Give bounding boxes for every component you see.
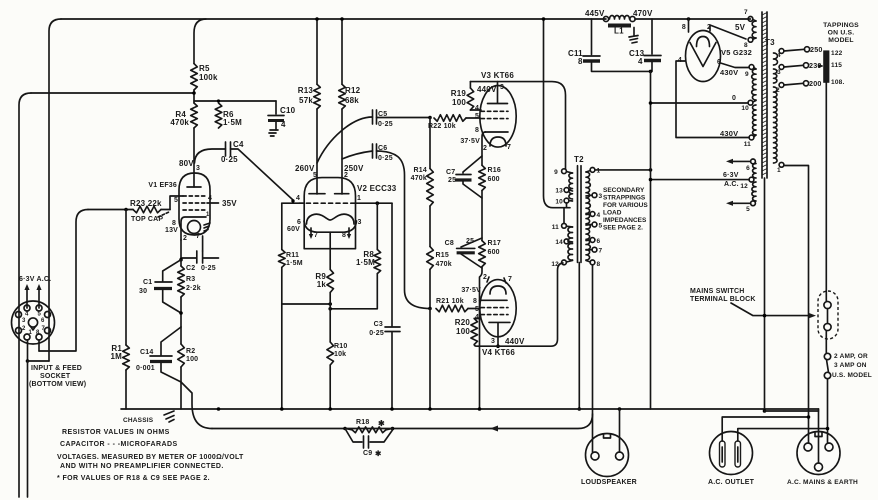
label heater AC	[19, 276, 51, 283]
svg-text:V2 ECC33: V2 ECC33	[357, 184, 397, 193]
T3 6.3V winding	[752, 164, 756, 202]
svg-text:R20: R20	[455, 318, 471, 327]
svg-text:60V: 60V	[287, 226, 300, 233]
socket pin numbers	[22, 312, 46, 337]
svg-text:TAPPINGS: TAPPINGS	[823, 22, 859, 29]
node V1 cathode	[179, 258, 183, 262]
wire tap 250	[784, 45, 823, 54]
svg-text:6: 6	[597, 238, 601, 245]
wire R2 to chassis	[180, 382, 182, 409]
T3 5V winding	[735, 9, 756, 49]
wire rail1 left corner down	[49, 19, 61, 361]
svg-text:4: 4	[638, 57, 643, 66]
svg-text:T2: T2	[574, 155, 584, 164]
svg-text:INPUT & FEED: INPUT & FEED	[31, 365, 82, 372]
svg-text:R19: R19	[451, 89, 467, 98]
svg-text:3: 3	[22, 318, 26, 324]
wire screen branch	[194, 99, 276, 102]
svg-text:2 AMP, OR: 2 AMP, OR	[834, 353, 868, 360]
svg-text:100: 100	[452, 98, 466, 107]
wire T2 pin11 stub	[563, 208, 565, 224]
resistor R17	[479, 240, 501, 267]
svg-text:0·25: 0·25	[201, 265, 216, 272]
svg-text:0: 0	[732, 95, 736, 102]
resistor R8	[331, 203, 381, 309]
capacitor C1	[139, 260, 181, 313]
wire T2 core to chassis	[578, 262, 582, 410]
wire V1 grid leak column	[125, 210, 127, 346]
svg-text:5: 5	[475, 306, 479, 313]
svg-text:0·25: 0·25	[221, 155, 238, 164]
svg-text:1·5M: 1·5M	[286, 260, 303, 267]
tube V5 GZ32 envelope	[686, 31, 753, 82]
svg-text:1k: 1k	[317, 280, 327, 289]
V4 heater loop	[490, 286, 506, 294]
wire T2 pin10 stub	[566, 203, 568, 208]
svg-text:1: 1	[777, 167, 781, 174]
T2 secondary terminals	[586, 168, 597, 265]
V2 heater pins	[309, 228, 351, 239]
wire T3 core earth	[764, 178, 766, 411]
T2 primary terminals	[562, 169, 573, 265]
svg-text:STRAPPINGS: STRAPPINGS	[603, 195, 646, 202]
svg-text:11: 11	[744, 141, 751, 148]
wire earth drop	[765, 410, 819, 412]
resistor R23	[130, 199, 170, 213]
resistor R11	[279, 203, 303, 304]
wire junction to chassis	[429, 309, 431, 410]
svg-text:2: 2	[483, 145, 487, 152]
wire V5 pin2 to 5V winding	[710, 25, 746, 39]
ac mains connector	[787, 432, 858, 487]
V1 pin5 bracket	[170, 196, 183, 210]
svg-text:R2: R2	[186, 348, 195, 355]
svg-text:9: 9	[745, 71, 749, 78]
svg-text:2: 2	[183, 235, 187, 242]
svg-text:4: 4	[281, 120, 286, 129]
V1 heater loop	[165, 221, 201, 243]
node ground bus top	[649, 70, 653, 74]
V2 anode plates	[309, 193, 349, 195]
capacitor C13	[629, 19, 661, 71]
wire R5 branch corner	[194, 19, 206, 64]
svg-text:7: 7	[42, 326, 46, 332]
V3 anode	[477, 82, 508, 104]
svg-text:C3: C3	[374, 321, 383, 328]
resistor R1	[110, 344, 129, 370]
svg-text:3: 3	[599, 193, 603, 200]
T3 HT winding upper	[745, 65, 756, 100]
resistor R15	[427, 206, 452, 269]
svg-text:445V: 445V	[585, 9, 605, 18]
capacitor C8	[445, 238, 482, 268]
svg-text:1M: 1M	[110, 352, 122, 361]
svg-text:5: 5	[38, 312, 42, 318]
svg-text:8: 8	[473, 298, 477, 305]
svg-text:✱: ✱	[378, 419, 385, 428]
capacitor C2	[181, 236, 219, 272]
resistor R6	[215, 103, 242, 128]
svg-text:TERMINAL BLOCK: TERMINAL BLOCK	[690, 296, 756, 303]
svg-text:1: 1	[29, 330, 33, 336]
resistor R21	[436, 298, 480, 312]
wire B+ top rail	[61, 18, 606, 20]
T2 primary pin labels	[551, 169, 563, 268]
svg-text:0·25: 0·25	[378, 155, 393, 162]
T3 HT centre tap	[732, 95, 756, 112]
wire grid leak to junction	[428, 269, 432, 310]
node C5-R22	[428, 116, 432, 120]
svg-text:0·25: 0·25	[369, 330, 384, 337]
wire R5 to rail2 junction	[192, 90, 196, 103]
V2 grid dashes	[296, 195, 361, 203]
ground at L1	[629, 28, 638, 44]
svg-text:R14: R14	[414, 167, 427, 174]
svg-text:6: 6	[746, 165, 750, 172]
wire V5 anode pin4	[676, 61, 749, 138]
svg-text:3: 3	[196, 165, 200, 172]
svg-text:2·2k: 2·2k	[186, 285, 201, 292]
capacitor C7	[446, 156, 482, 198]
wire T2 pin1 to ground bus	[595, 168, 652, 172]
svg-text:470V: 470V	[633, 9, 653, 18]
T3 HT winding lower	[744, 105, 756, 148]
svg-text:100: 100	[456, 327, 470, 336]
wire cathode chain mid	[481, 191, 483, 241]
chassis bus	[121, 408, 819, 410]
svg-text:430V: 430V	[720, 129, 738, 138]
svg-text:A.C.: A.C.	[724, 181, 739, 188]
svg-text:1·5M: 1·5M	[356, 258, 375, 267]
svg-text:1: 1	[597, 168, 601, 175]
svg-text:7: 7	[507, 144, 511, 151]
svg-text:4: 4	[777, 52, 781, 59]
svg-text:25: 25	[448, 177, 456, 184]
svg-text:30: 30	[139, 288, 147, 295]
arrow heater pin5	[36, 284, 41, 308]
svg-text:108.: 108.	[831, 79, 844, 86]
socket V1 input circle	[12, 301, 55, 344]
svg-text:1: 1	[206, 212, 210, 218]
wire V3 anode top line	[470, 82, 565, 169]
svg-text:600: 600	[488, 176, 500, 183]
wire V3 cathode column	[482, 132, 486, 165]
svg-text:0·25: 0·25	[378, 121, 393, 128]
svg-text:R22 10k: R22 10k	[428, 123, 456, 130]
V1 grid dashes	[183, 196, 207, 210]
svg-text:7: 7	[314, 232, 318, 239]
svg-text:5: 5	[174, 197, 178, 204]
svg-text:MODEL: MODEL	[828, 37, 854, 44]
resistor R12	[339, 17, 361, 109]
svg-text:R13: R13	[298, 86, 314, 95]
svg-text:4: 4	[296, 195, 300, 202]
arrow heater pin4	[24, 284, 29, 308]
wire V4 grid from R21	[0, 0, 1, 1]
capacitor C4	[195, 140, 294, 200]
svg-text:1: 1	[357, 195, 361, 202]
wire socket pin8 to grid feed	[38, 340, 40, 351]
capacitor C3	[369, 203, 400, 409]
svg-text:600: 600	[488, 249, 500, 256]
svg-text:(BOTTOM VIEW): (BOTTOM VIEW)	[29, 381, 86, 388]
V1 cathode	[172, 217, 206, 240]
wire HT centre tap to ground	[649, 101, 748, 105]
svg-text:8: 8	[342, 232, 346, 239]
terminal 445V	[585, 9, 609, 22]
wire V2 cathode column	[329, 232, 331, 269]
svg-text:5V: 5V	[735, 23, 746, 32]
svg-text:4: 4	[475, 105, 479, 112]
svg-text:1·5M: 1·5M	[223, 118, 242, 127]
bus junction dots	[217, 407, 767, 413]
wire T2 pin8 to loudspeaker	[592, 265, 594, 452]
svg-text:6: 6	[41, 318, 45, 324]
svg-text:VOLTAGES. MEASURED BY METER OF: VOLTAGES. MEASURED BY METER OF 1000Ω/VOL…	[57, 454, 244, 461]
svg-text:2: 2	[776, 87, 780, 94]
svg-text:3: 3	[358, 219, 362, 226]
svg-text:3 AMP ON: 3 AMP ON	[834, 362, 867, 369]
svg-text:C10: C10	[280, 106, 296, 115]
V4 cathode	[473, 298, 507, 305]
label tappings	[823, 22, 859, 44]
wire rail2 left corner down	[19, 93, 31, 497]
svg-text:RESISTOR VALUES IN OHMS: RESISTOR VALUES IN OHMS	[62, 429, 170, 436]
svg-text:C1: C1	[143, 279, 152, 286]
socket keyway	[28, 318, 37, 330]
svg-text:R18: R18	[356, 419, 369, 426]
svg-text:200: 200	[809, 79, 822, 88]
svg-text:25: 25	[466, 238, 474, 245]
svg-text:260V: 260V	[295, 164, 315, 173]
svg-text:C5: C5	[378, 111, 387, 118]
svg-text:470k: 470k	[436, 261, 452, 268]
svg-text:R15: R15	[436, 252, 449, 259]
resistor R14	[411, 118, 434, 207]
T3 mains terminals	[776, 49, 784, 174]
svg-text:R10: R10	[334, 343, 347, 350]
T3 mains winding top	[774, 53, 778, 163]
svg-text:LOUDSPEAKER: LOUDSPEAKER	[581, 479, 637, 486]
mains switch terminal block	[818, 291, 838, 353]
resistor R10	[327, 293, 348, 410]
wire B+ centre feed	[542, 17, 570, 208]
svg-text:2: 2	[483, 274, 487, 281]
svg-text:12: 12	[551, 261, 559, 268]
resistor R9	[315, 269, 333, 292]
svg-text:ON U.S.: ON U.S.	[828, 30, 855, 37]
resistor R13	[298, 17, 321, 109]
US tapping bar	[823, 50, 844, 86]
svg-text:4: 4	[25, 312, 29, 318]
wire heater CT to ground	[649, 172, 749, 188]
wire V1 cathode column	[180, 240, 182, 260]
svg-text:57k: 57k	[299, 96, 313, 105]
svg-text:7: 7	[599, 248, 603, 255]
wire ground bus	[650, 71, 652, 409]
svg-text:11: 11	[552, 224, 559, 231]
T2 primary coil lower	[568, 227, 573, 260]
svg-text:440V: 440V	[477, 85, 497, 94]
svg-text:7: 7	[744, 9, 748, 16]
tube V3 KT66 envelope	[480, 71, 516, 147]
svg-text:37·5V: 37·5V	[461, 287, 481, 294]
V4 heater pins	[461, 274, 512, 294]
chassis ground symbol	[123, 411, 174, 424]
svg-text:122: 122	[831, 50, 843, 57]
svg-text:3: 3	[500, 84, 504, 91]
svg-text:✱: ✱	[375, 449, 382, 458]
svg-text:8: 8	[597, 261, 601, 268]
V5 filament dome	[697, 37, 710, 47]
svg-text:7: 7	[196, 233, 200, 240]
svg-text:5: 5	[746, 206, 750, 213]
svg-text:13V: 13V	[165, 227, 178, 234]
wire 470V to rectifier	[635, 17, 751, 21]
capacitor C9	[345, 429, 393, 459]
V3 heater loop	[483, 137, 511, 152]
terminal 470V	[630, 9, 653, 22]
svg-text:10: 10	[741, 105, 749, 112]
svg-text:R11: R11	[286, 252, 299, 259]
V1 pin1 shield squiggle	[204, 212, 210, 231]
svg-text:* FOR VALUES OF R18 & C9 SEE P: * FOR VALUES OF R18 & C9 SEE PAGE 2.	[57, 475, 210, 482]
svg-text:3: 3	[777, 69, 781, 76]
wire tap 200	[784, 79, 822, 88]
svg-text:FOR VARIOUS: FOR VARIOUS	[603, 202, 648, 209]
svg-text:100: 100	[186, 356, 198, 363]
svg-text:R16: R16	[488, 167, 501, 174]
wire R11 join	[282, 302, 332, 310]
capacitor C10	[268, 101, 296, 130]
svg-text:MAINS SWITCH: MAINS SWITCH	[690, 288, 745, 295]
svg-text:V4 KT66: V4 KT66	[482, 348, 515, 357]
svg-text:C14: C14	[140, 349, 153, 356]
V3 grid dashes	[475, 105, 508, 120]
V5 filament V	[690, 43, 716, 67]
resistor R18	[343, 419, 394, 433]
wire tap 230	[784, 61, 823, 70]
svg-text:CAPACITOR - - -MICROFAR: CAPACITOR - - -MICROFARADS	[60, 441, 178, 448]
svg-text:C9: C9	[363, 450, 372, 457]
svg-text:V3 KT66: V3 KT66	[481, 71, 514, 80]
svg-text:6: 6	[297, 219, 301, 226]
svg-text:470k: 470k	[411, 175, 427, 182]
V1 anode plate	[179, 159, 201, 187]
wire grid input junction	[88, 208, 133, 212]
svg-text:37·5V: 37·5V	[460, 138, 480, 145]
label secondary strappings	[603, 187, 648, 232]
svg-text:2: 2	[22, 326, 26, 332]
svg-text:V1 EF36: V1 EF36	[148, 182, 177, 189]
tube V4 KT66 envelope	[480, 280, 516, 357]
svg-text:10: 10	[555, 199, 563, 206]
wire R12 to V2 anode pin2	[342, 109, 364, 194]
socket pins	[16, 305, 51, 340]
ground below C10	[269, 130, 278, 136]
label input socket	[29, 365, 86, 388]
svg-text:8: 8	[744, 42, 748, 49]
resistor R20	[455, 318, 480, 345]
T2 primary coil upper	[569, 173, 573, 199]
inductor L1	[608, 16, 631, 36]
svg-text:8: 8	[172, 220, 176, 227]
wire outlet neutral	[738, 427, 830, 441]
svg-text:115: 115	[831, 62, 842, 69]
svg-text:440V: 440V	[505, 337, 525, 346]
svg-text:4: 4	[208, 195, 212, 202]
svg-text:10k: 10k	[334, 351, 346, 358]
resistor R4	[170, 103, 197, 128]
svg-text:SOCKET: SOCKET	[40, 373, 71, 380]
T3 heater terminals	[740, 159, 755, 213]
svg-text:T3: T3	[765, 38, 775, 47]
T2 secondary pin labels	[597, 168, 603, 269]
svg-text:13: 13	[555, 188, 563, 195]
svg-text:R12: R12	[345, 86, 361, 95]
svg-text:R3: R3	[186, 276, 195, 283]
V4 grid dashes	[475, 306, 508, 321]
wire V2 pin1 stub	[356, 201, 393, 205]
svg-text:C7: C7	[446, 169, 455, 176]
svg-text:7: 7	[508, 276, 512, 283]
svg-text:470k: 470k	[170, 118, 189, 127]
feedback line	[212, 414, 593, 432]
svg-text:250: 250	[810, 45, 823, 54]
svg-text:5: 5	[475, 113, 479, 120]
resistor R2	[178, 327, 199, 382]
svg-text:100k: 100k	[199, 73, 218, 82]
wire socket pin1 down	[26, 340, 49, 497]
V4 anode	[489, 322, 525, 348]
transformer T3 core	[762, 12, 775, 178]
node R3 bottom	[179, 311, 183, 315]
svg-text:AND WITH NO PREAMPLIFIER CONNE: AND WITH NO PREAMPLIFIER CONNECTED.	[60, 463, 224, 470]
wire T3 pin1 to mains	[784, 166, 809, 444]
ac outlet connector	[708, 432, 755, 487]
svg-text:SEE PAGE 2.: SEE PAGE 2.	[603, 225, 643, 232]
T2 secondary coil	[586, 172, 590, 260]
wire V4 anode line	[474, 263, 563, 346]
svg-text:LOAD: LOAD	[603, 210, 622, 217]
wire V2 pin4 stub	[282, 199, 304, 203]
wire outlet live	[722, 415, 810, 441]
svg-text:R21 10k: R21 10k	[436, 298, 464, 305]
svg-text:R5: R5	[199, 64, 210, 73]
svg-text:12: 12	[740, 183, 748, 190]
resistor R22	[428, 115, 480, 130]
wire input riser	[39, 210, 88, 352]
wire cathode to chassis	[480, 267, 486, 409]
V3 cathode	[460, 127, 508, 145]
svg-text:6·3V: 6·3V	[723, 172, 739, 179]
svg-text:8: 8	[682, 24, 686, 31]
wire mains centre to bus	[818, 409, 820, 463]
resistor R19	[451, 82, 481, 110]
arrow heater 5	[726, 201, 751, 206]
transformer T2 core	[574, 155, 584, 262]
svg-text:C4: C4	[233, 140, 244, 149]
svg-text:R23 22k: R23 22k	[130, 199, 162, 208]
notes text	[57, 429, 244, 482]
svg-text:8: 8	[475, 127, 479, 134]
svg-text:0·001: 0·001	[136, 365, 155, 372]
tube V2 ECC33 envelope	[304, 178, 397, 249]
svg-text:CHASSIS: CHASSIS	[123, 417, 154, 424]
resistor R3	[178, 260, 201, 327]
svg-text:8: 8	[578, 57, 583, 66]
wire C6 S-curve to V4 grid	[377, 151, 431, 309]
